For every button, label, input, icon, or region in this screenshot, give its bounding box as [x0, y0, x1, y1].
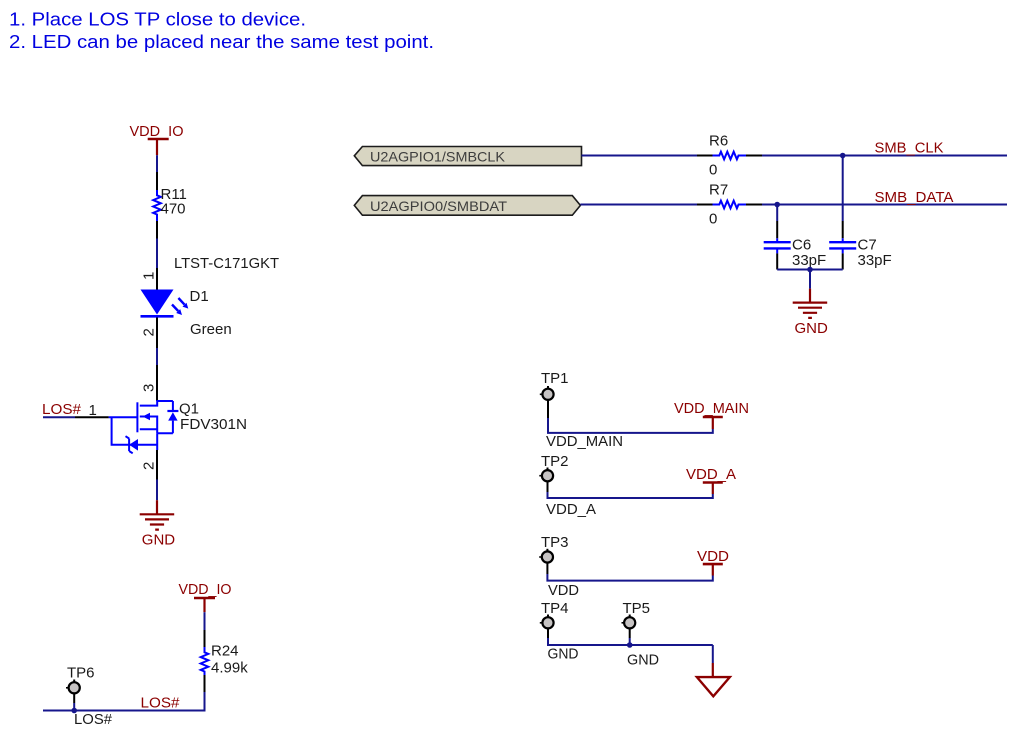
- svg-text:U2AGPIO0/SMBDAT: U2AGPIO0/SMBDAT: [370, 198, 507, 214]
- svg-text:4.99k: 4.99k: [211, 660, 248, 677]
- junction TP6 / LOS# wire: [71, 708, 77, 714]
- test point TP1: [540, 370, 569, 400]
- svg-text:VDD_MAIN: VDD_MAIN: [546, 433, 623, 450]
- resistor R6: [697, 133, 762, 179]
- port U2AGPIO1/SMBCLK: [354, 147, 581, 166]
- wire R11 to D1: [156, 239, 158, 269]
- svg-text:VDD_MAIN: VDD_MAIN: [674, 400, 749, 417]
- svg-text:2. LED can be placed near the: 2. LED can be placed near the same test …: [9, 32, 434, 52]
- test point TP6: [66, 665, 95, 694]
- ground triangle (earth): [697, 663, 730, 696]
- svg-text:GND: GND: [142, 532, 176, 549]
- test point TP4: [540, 600, 569, 628]
- svg-text:R24: R24: [211, 643, 239, 660]
- port U2AGPIO0/SMBDAT: [354, 196, 580, 216]
- wire TP1 to VDD_MAIN: [548, 400, 713, 433]
- wire VDD_IO to R24: [204, 612, 206, 630]
- svg-text:D1: D1: [190, 288, 209, 305]
- capacitor C7: [829, 221, 892, 270]
- svg-text:2: 2: [141, 328, 158, 336]
- svg-text:GND: GND: [795, 320, 829, 337]
- wire R7 to SMB_DATA: [762, 204, 1007, 206]
- svg-text:VDD: VDD: [548, 582, 579, 599]
- wire D1 to Q1: [156, 318, 158, 366]
- svg-text:SMB_CLK: SMB_CLK: [875, 139, 944, 156]
- power flag VDD_IO (bottom): [179, 581, 232, 612]
- wire C6 drop from SMB_DATA: [776, 205, 778, 222]
- transistor Q1: [109, 365, 247, 480]
- svg-text:R6: R6: [709, 133, 728, 150]
- svg-text:C7: C7: [858, 236, 877, 253]
- svg-text:TP1: TP1: [541, 370, 569, 387]
- resistor R11: [153, 172, 187, 239]
- svg-text:0: 0: [709, 211, 717, 228]
- svg-text:0: 0: [709, 162, 717, 179]
- svg-text:Green: Green: [190, 321, 232, 338]
- resistor R7: [697, 182, 762, 228]
- wire caps to GND: [777, 270, 843, 289]
- svg-text:GND: GND: [548, 646, 579, 663]
- svg-text:TP5: TP5: [623, 600, 651, 617]
- power flag VDD: [697, 548, 729, 576]
- svg-text:VDD_IO: VDD_IO: [179, 581, 232, 598]
- svg-text:GND: GND: [627, 652, 659, 669]
- wire LOS# to Q1 gate: [43, 416, 109, 418]
- power flag VDD_MAIN: [674, 400, 749, 429]
- power flag VDD_IO (top): [130, 123, 184, 155]
- wire VDD_IO to R11: [156, 155, 158, 172]
- svg-text:TP3: TP3: [541, 534, 569, 551]
- svg-text:TP6: TP6: [67, 665, 95, 682]
- svg-text:3: 3: [141, 384, 158, 392]
- power flag VDD_A: [686, 466, 736, 494]
- wire Q1 source to GND: [156, 480, 158, 501]
- junction SMB_CLK / C7: [840, 153, 846, 159]
- wire TP4 TP5 to ground: [548, 628, 713, 663]
- junction caps / GND: [807, 267, 813, 273]
- wire TP2 to VDD_A: [548, 481, 713, 498]
- svg-text:VDD: VDD: [697, 548, 729, 565]
- ground GND (below Q1): [140, 500, 176, 548]
- svg-text:LOS#: LOS#: [74, 711, 113, 728]
- svg-text:VDD_IO: VDD_IO: [130, 123, 184, 140]
- svg-text:TP4: TP4: [541, 600, 569, 617]
- svg-text:VDD_A: VDD_A: [546, 501, 596, 518]
- svg-text:LTST-C171GKT: LTST-C171GKT: [174, 255, 279, 272]
- capacitor C6: [764, 221, 827, 270]
- svg-text:FDV301N: FDV301N: [180, 416, 247, 433]
- test point TP3: [539, 534, 568, 563]
- wire R6 to SMB_CLK: [762, 155, 1007, 157]
- svg-text:LOS#: LOS#: [141, 695, 181, 712]
- wire SMBDAT port to R7: [580, 204, 697, 206]
- wire TP6 to LOS# wire: [73, 693, 75, 710]
- junction TP5 / GND wire: [627, 642, 633, 648]
- ground GND (C6 C7): [793, 289, 828, 337]
- resistor R24: [201, 630, 248, 692]
- svg-text:2: 2: [141, 462, 158, 470]
- svg-text:470: 470: [161, 201, 186, 218]
- schematic notes: [9, 10, 434, 53]
- svg-text:1. Place LOS TP close to devic: 1. Place LOS TP close to device.: [9, 10, 306, 30]
- svg-text:33pF: 33pF: [792, 252, 826, 269]
- svg-text:C6: C6: [792, 236, 811, 253]
- svg-text:33pF: 33pF: [858, 252, 892, 269]
- svg-text:1: 1: [141, 272, 158, 280]
- wire R24 to LOS#: [43, 692, 205, 711]
- wire TP3 to VDD: [547, 563, 712, 581]
- svg-text:U2AGPIO1/SMBCLK: U2AGPIO1/SMBCLK: [370, 148, 506, 164]
- svg-text:VDD_A: VDD_A: [686, 466, 736, 483]
- test point TP5: [622, 600, 651, 628]
- junction SMB_DATA / C6: [774, 202, 780, 208]
- wire SMBCLK port to R6: [582, 155, 698, 157]
- LED D1: [141, 255, 280, 338]
- svg-text:TP2: TP2: [541, 453, 569, 470]
- test point TP2: [539, 453, 568, 481]
- svg-text:SMB_DATA: SMB_DATA: [875, 189, 954, 206]
- wire C7 drop from SMB_CLK: [842, 156, 844, 222]
- svg-text:R7: R7: [709, 182, 728, 199]
- svg-text:LOS#: LOS#: [42, 401, 82, 418]
